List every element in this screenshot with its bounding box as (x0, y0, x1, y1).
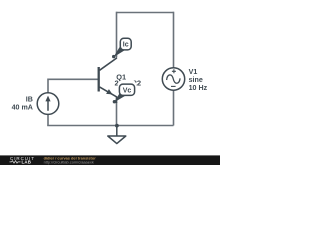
probe label Ic tail (113, 46, 125, 58)
junction dot ground node (115, 124, 119, 128)
svg-text:sine: sine (189, 76, 203, 84)
wire bottom horizontal (ground net) (47, 125, 173, 127)
transistor Q1 emitter arrow (106, 89, 112, 94)
svg-text:Ic: Ic (123, 42, 129, 49)
svg-text:IB: IB (26, 95, 33, 103)
V1 sine wave (167, 75, 181, 83)
current source IB arrow (47, 99, 49, 111)
wire IB bottom vertical (47, 114, 49, 125)
svg-text:Vc: Vc (123, 87, 132, 94)
wire collector vertical (116, 12, 118, 58)
svg-text:10 Hz: 10 Hz (189, 84, 208, 92)
transistor Q1 collector lead (100, 58, 117, 70)
probe label Ic halo (118, 36, 133, 52)
V1 minus sign (171, 85, 176, 87)
ground symbol triangle (108, 136, 126, 144)
probe label Ic box (120, 38, 131, 50)
wire top horizontal (collector net to V1) (117, 12, 174, 14)
voltage source V1 circle (162, 68, 184, 90)
wire V1 top vertical (173, 12, 175, 68)
transistor Q1 base bar (98, 67, 100, 92)
ground stub wire (116, 126, 118, 137)
current source IB circle (37, 93, 59, 115)
svg-text:nttp://circuitlab.com/c/aaaexk: nttp://circuitlab.com/c/aaaexk (44, 160, 94, 165)
probe label Vc box (119, 84, 134, 95)
watermark logo zigzag (10, 161, 21, 163)
wire emitter vertical (116, 102, 118, 126)
svg-text:LAB: LAB (22, 160, 32, 165)
svg-text:40 mA: 40 mA (12, 103, 33, 111)
svg-text:V1: V1 (189, 68, 198, 76)
probe label Vc halo (118, 80, 136, 98)
wire V1 bottom vertical (173, 90, 175, 126)
watermark bar (0, 155, 220, 165)
V1 plus sign (172, 69, 176, 73)
wire base net (IB top to Q1 base) (48, 79, 99, 93)
probe label Vc tail (114, 93, 125, 103)
transistor Q1 emitter lead (100, 87, 117, 103)
